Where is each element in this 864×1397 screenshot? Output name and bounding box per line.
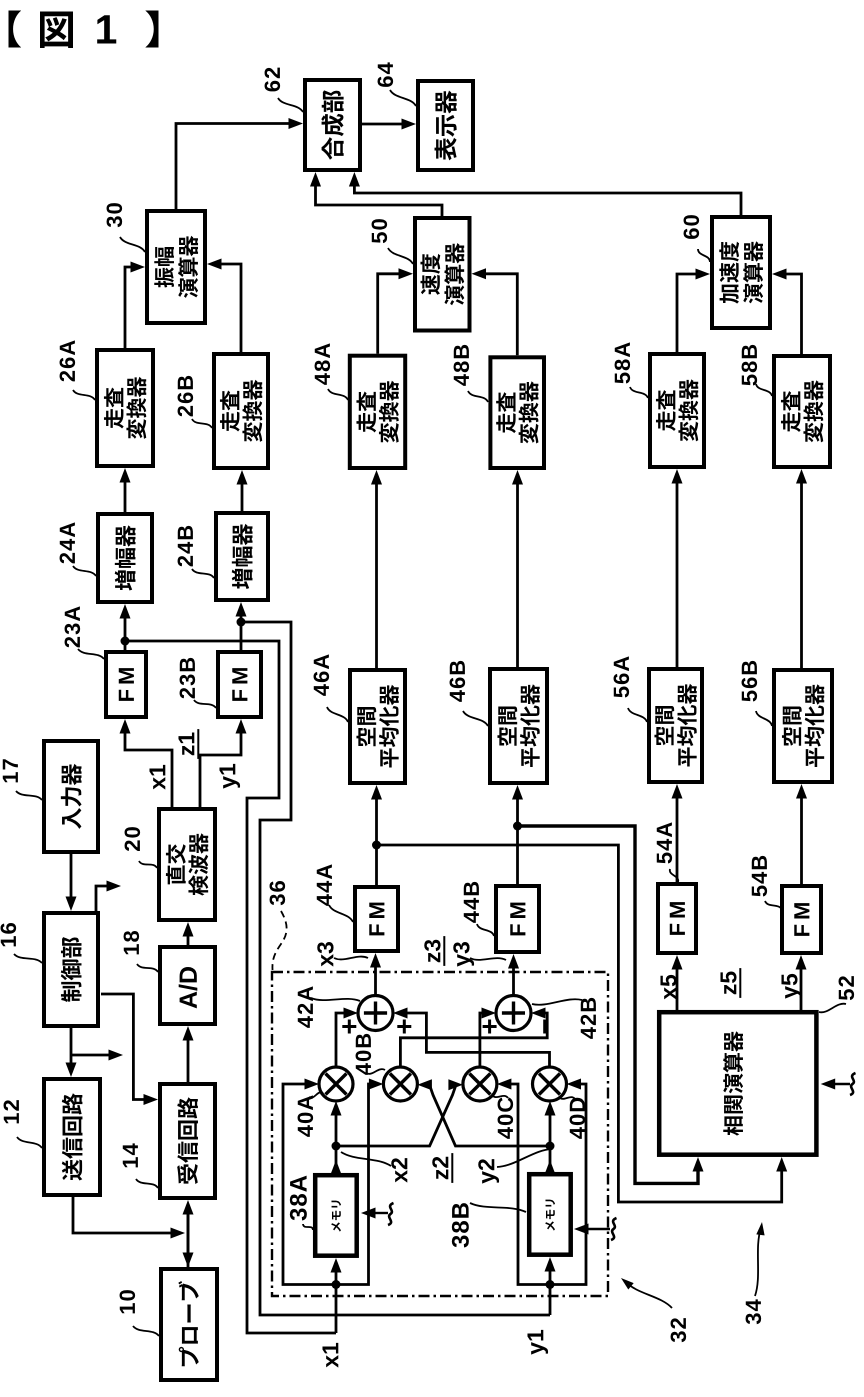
wire 20 to 23B y1 — [200, 731, 241, 807]
block 30 amplitude calculator text l1 — [154, 247, 174, 288]
block 16 controller text — [61, 937, 82, 1002]
block 12 transmit circuit text — [62, 1093, 83, 1180]
wire 17 to 16 — [70, 854, 73, 899]
label 18 — [124, 931, 140, 954]
leader 64 — [390, 90, 416, 106]
leader 44B — [477, 924, 494, 936]
leader 38B — [470, 1203, 526, 1212]
wire 50 to 62 — [316, 184, 443, 216]
block 56A spatial averager text l1 — [654, 706, 674, 745]
block 23A FM — [106, 652, 146, 717]
block 17 input device — [44, 741, 98, 852]
block 50 velocity calculator — [415, 218, 470, 331]
underline z3 — [443, 936, 445, 966]
block 60 acceleration calculator — [712, 217, 770, 328]
wire 44A to 46A — [375, 797, 378, 885]
leader 40C — [492, 1095, 508, 1098]
wire x3 feed to 52 — [377, 845, 782, 1202]
block 20 quadrature detector — [159, 809, 215, 920]
block 56A spatial averager text l2 — [677, 684, 697, 767]
wire 40D to 42A — [405, 1013, 550, 1067]
label 16 — [1, 923, 17, 946]
junction dot x1 branch — [332, 1280, 341, 1289]
block 64 hyoji-ki (display) — [418, 81, 473, 170]
label 14 — [123, 1143, 138, 1167]
label 42B — [581, 998, 596, 1039]
wire 12 to probe line — [73, 1197, 173, 1233]
block 24B amplifier text — [232, 524, 253, 589]
wire 40A to 42A — [336, 1013, 346, 1067]
label 54B — [752, 856, 767, 897]
leader 46A — [327, 707, 348, 722]
wire x1 branch to 40A — [283, 1084, 336, 1285]
junction dot y3 tap — [513, 822, 522, 831]
block 26B scan converter text l2 — [242, 380, 262, 442]
block 20 quadrature detector text l2 — [188, 833, 208, 895]
leader 48B — [468, 391, 488, 402]
signal z3 — [424, 940, 440, 963]
arrowhead leader 32 — [621, 1278, 634, 1290]
wire 62 to 64 — [362, 123, 404, 126]
block 23B FM — [218, 652, 261, 717]
leader 24A — [73, 566, 96, 576]
leader 50 — [388, 248, 413, 264]
wire 48A to 50 — [378, 274, 401, 354]
leader 18 — [137, 964, 158, 972]
mid arrowhead on 38B output — [545, 1160, 556, 1175]
block 58A scan converter text l1 — [656, 390, 676, 431]
block 46A spatial averager — [350, 670, 405, 783]
block 62 gosei-bu (combiner) — [305, 80, 360, 170]
plus sign 42A right — [397, 1020, 411, 1034]
block 10 probe — [161, 1269, 217, 1380]
block 14 receive circuit — [160, 1084, 215, 1198]
signal z2 — [432, 1157, 448, 1179]
block 46B spatial averager text l2 — [520, 684, 540, 767]
wire 14 to 18 — [187, 1038, 190, 1082]
label 52 — [839, 976, 855, 1000]
label 23A — [65, 606, 81, 647]
wire 42B to 44B y3 — [512, 966, 515, 996]
label 38B — [452, 1203, 469, 1247]
label 44B — [464, 882, 479, 923]
leader 62 — [278, 98, 303, 112]
leader y2 — [497, 1149, 552, 1167]
label 12 — [4, 1100, 19, 1123]
leader 58A — [630, 387, 648, 398]
leader 32 — [626, 1282, 672, 1308]
signal x1 top — [149, 765, 165, 790]
leader 34 — [755, 1228, 761, 1296]
label 36 — [270, 881, 286, 905]
signal x1 bottom — [322, 1343, 338, 1368]
underline z2 — [451, 1153, 453, 1183]
wire 48B to 50 — [484, 274, 518, 356]
label 32 — [671, 1318, 687, 1342]
leader 10 — [133, 1326, 159, 1336]
leader 42B — [532, 999, 582, 1005]
label 50 — [372, 219, 388, 243]
wire y1 branch to 40D — [550, 1084, 586, 1285]
block 58B scan converter text l1 — [781, 391, 801, 432]
wire 16 control stub mid — [71, 1054, 111, 1057]
signal x2 — [391, 1158, 407, 1183]
block 26A scan converter text l2 — [126, 377, 146, 439]
signal y1 bottom — [527, 1330, 548, 1355]
block 58B scan converter text l2 — [803, 380, 823, 442]
label 40A — [298, 1095, 314, 1136]
block 16 controller — [44, 913, 98, 1026]
wire 24B to 26B — [241, 482, 244, 511]
block 50 velocity calculator text l2 — [444, 243, 464, 305]
block 54A FM — [658, 884, 696, 953]
signal y2 — [478, 1159, 499, 1183]
wire 52 to 54A x5 — [676, 967, 679, 1010]
leader 26A — [73, 390, 95, 400]
block 46B spatial averager text l1 — [497, 707, 517, 746]
underline z1 — [197, 729, 199, 759]
wire 30 to 62 — [176, 124, 291, 210]
signal x5 — [660, 975, 676, 1000]
label 24B — [178, 526, 193, 567]
wire 16 to 14 control — [101, 994, 146, 1100]
leader 40D — [559, 1097, 575, 1099]
wire probe down — [187, 1210, 190, 1255]
wire control to 52 — [833, 1083, 850, 1085]
wire 14 probe up — [187, 1212, 190, 1267]
block 24A amplifier — [98, 514, 152, 602]
leader 14 — [136, 1179, 158, 1188]
leader 52 — [819, 1004, 846, 1013]
block 38B memory — [529, 1174, 571, 1255]
leader 54B — [765, 901, 782, 910]
label 38A — [290, 1176, 307, 1221]
leader 20 — [139, 861, 157, 868]
wire 16 control stub up — [96, 886, 109, 911]
dashed enclosure box 36 — [272, 972, 608, 1296]
block 12 transmit circuit — [44, 1079, 100, 1195]
adder 42A — [358, 996, 393, 1031]
block 56A spatial averager — [649, 669, 702, 782]
block 58B scan converter — [774, 356, 830, 467]
block 26A scan converter text l1 — [104, 388, 124, 429]
leader 40A — [309, 1092, 323, 1097]
wire x1 bus — [125, 641, 336, 1333]
leader x3 — [334, 957, 368, 960]
block 56B spatial averager text l1 — [782, 707, 802, 746]
leader x2 — [341, 1152, 391, 1166]
label 62 — [265, 68, 281, 92]
block 48A scan converter text l2 — [379, 381, 399, 443]
wire 58A to 60 — [677, 274, 698, 352]
leader 16 — [14, 954, 42, 963]
label 26A — [60, 340, 76, 381]
wire 38B to 40D y2 — [549, 1113, 552, 1172]
wire 23B to 24B — [240, 614, 243, 650]
signal x3 — [317, 942, 333, 967]
block 54B FM — [782, 886, 821, 953]
leader 44A — [329, 905, 353, 922]
label 60 — [684, 215, 700, 239]
label 48B — [454, 345, 470, 386]
caption 【図 1】 — [9, 11, 21, 48]
FM 23A text — [119, 668, 134, 701]
control squiggle 38A — [388, 1203, 394, 1225]
block 48A scan converter text l1 — [356, 391, 376, 432]
adder 42B — [496, 996, 531, 1031]
leader 30 — [120, 237, 145, 252]
block 14 receive circuit text — [177, 1097, 198, 1184]
multiplier 40A — [319, 1067, 353, 1101]
wire y1 bus — [241, 622, 550, 1315]
signal y5 — [781, 974, 802, 999]
block 46B spatial averager — [490, 669, 547, 783]
wire y1 riser to 38B — [549, 1269, 552, 1315]
block 48A scan converter — [350, 356, 405, 468]
block 30 amplitude calculator — [147, 211, 205, 323]
leader y3 — [470, 958, 506, 960]
block 48B scan converter — [490, 357, 544, 468]
block 48B scan converter text l2 — [519, 381, 539, 443]
wire 46B to 48B — [516, 482, 519, 667]
wire 60 to 62 — [354, 184, 741, 215]
junction dot x1 tap — [121, 637, 130, 646]
leader 26B — [192, 419, 212, 428]
leader 54A — [670, 869, 678, 882]
control squiggle 52 — [850, 1073, 856, 1095]
FM 44B text — [510, 903, 525, 936]
wire 46A to 48A — [375, 482, 378, 668]
wire 18 to 20 — [187, 934, 190, 945]
wire 26A to 30 — [125, 267, 133, 348]
A/D text — [179, 967, 198, 1008]
wire 20 to 23A x1 — [125, 731, 172, 807]
label 48A — [315, 343, 331, 384]
label 26B — [178, 376, 194, 417]
FM 23B text — [232, 668, 247, 701]
block 56B spatial averager text l2 — [804, 684, 824, 767]
signal z1 — [178, 732, 194, 755]
wire 58B to 60 — [784, 274, 802, 354]
leader 36 — [272, 911, 286, 970]
leader 48A — [328, 389, 348, 400]
leader 58B — [756, 384, 772, 396]
multiplier 40B — [383, 1067, 417, 1101]
label 24A — [60, 522, 75, 563]
signal y3 — [453, 942, 474, 967]
arrowhead leader 34 — [756, 1222, 764, 1235]
block 56B spatial averager — [774, 670, 832, 782]
label 40D — [570, 1098, 586, 1139]
wire x1 branch to 40B — [336, 1084, 371, 1285]
block 58A scan converter text l2 — [678, 379, 698, 441]
leader 60 — [698, 249, 710, 262]
wire x2 cross to 40C — [336, 1085, 456, 1146]
wire 40B to 42B — [400, 1013, 547, 1067]
wire 56A to 58A — [676, 481, 679, 667]
wire 40C to 42B — [480, 1013, 484, 1067]
wire 54B to 56B — [800, 796, 803, 884]
label 54A — [657, 822, 672, 863]
wire 52 to 54B y5 — [800, 967, 803, 1010]
block 44B FM — [496, 886, 539, 952]
mid arrowhead on 38A output — [331, 1160, 342, 1175]
signal y1 top — [219, 764, 240, 789]
wire control to 38A — [373, 1212, 388, 1214]
block 48B scan converter text l1 — [496, 392, 516, 433]
junction dot y2 tap — [546, 1142, 555, 1151]
wire 26B to 30 — [219, 264, 241, 352]
block 30 amplitude calculator text l2 — [178, 236, 198, 298]
block 60 acceleration calculator text l1 — [719, 242, 739, 304]
block 44A FM — [355, 887, 398, 951]
leader 23B — [194, 700, 216, 708]
wire 44B to 46B — [516, 797, 519, 884]
leader 56B — [756, 711, 772, 726]
label 10 — [120, 1290, 136, 1313]
junction dot y1 branch — [546, 1280, 555, 1289]
FM 44A text — [369, 903, 384, 936]
leader 40B — [366, 1069, 385, 1074]
leader 46B — [463, 711, 488, 726]
leader 56A — [628, 708, 647, 722]
leader 17 — [16, 791, 42, 800]
label 20 — [125, 827, 141, 851]
leader 12 — [17, 1137, 42, 1148]
block 20 quadrature detector text l1 — [166, 844, 186, 884]
junction dot y1 tap — [237, 618, 246, 627]
wire control to 38B — [586, 1228, 610, 1230]
leader 38A — [303, 1224, 313, 1230]
block 10 probe text — [178, 1281, 198, 1366]
label 56B — [742, 661, 758, 702]
label 40C — [498, 1097, 514, 1138]
label 23B — [180, 658, 196, 699]
wire 38A to 40A x2 — [335, 1113, 338, 1173]
block 58A scan converter — [650, 354, 704, 467]
junction dot x2 tap — [332, 1142, 341, 1151]
block 46A spatial averager text l1 — [356, 707, 376, 746]
block 46A spatial averager text l2 — [379, 685, 399, 768]
block 38A memory text — [331, 1201, 341, 1232]
block 26A scan converter — [97, 350, 153, 466]
label 56A — [614, 656, 630, 697]
block 60 acceleration calculator text l2 — [743, 241, 763, 303]
leader 23A — [78, 649, 104, 659]
wire 42A to 44A x3 — [374, 965, 377, 996]
underline z5 — [739, 968, 741, 998]
multiplier 40C — [463, 1067, 497, 1101]
block 17 input device text — [61, 764, 82, 829]
wire x1 riser to 38A — [335, 1270, 338, 1333]
label 17 — [3, 759, 18, 782]
label 46A — [314, 654, 330, 695]
block 18 A/D — [160, 947, 215, 1024]
label 42A — [298, 986, 313, 1027]
block 24A amplifier text — [115, 525, 136, 590]
block 38A memory — [315, 1175, 357, 1256]
wire 24A to 26A — [124, 480, 127, 512]
block 26B scan converter text l1 — [220, 391, 240, 432]
plus sign 42A left — [342, 1020, 356, 1034]
FM 54B text — [794, 903, 809, 936]
signal z5 — [720, 971, 736, 994]
wire 54A to 56A — [676, 796, 679, 882]
label 46B — [450, 661, 466, 702]
leader 42A — [311, 998, 360, 1001]
junction dot x3 tap — [372, 841, 381, 850]
block 64 hyoji-ki (display) text — [435, 91, 457, 161]
leader 24B — [192, 569, 214, 578]
label 58B — [742, 345, 758, 386]
block 26B scan converter — [214, 354, 268, 468]
block 62 gosei-bu (combiner) text — [321, 90, 344, 159]
label 34 — [746, 1299, 762, 1324]
label 44A — [317, 864, 332, 905]
wire 23A to 24A — [124, 616, 127, 650]
label 30 — [107, 203, 123, 227]
minus sign 42B right — [543, 1020, 546, 1034]
multiplier 40D — [533, 1067, 567, 1101]
plus sign 42B left — [483, 1020, 497, 1034]
label 64 — [378, 62, 394, 87]
wire y2 cross to 40B — [429, 1085, 550, 1146]
control squiggle 38B — [611, 1218, 617, 1240]
block 52 correlation calculator — [659, 1012, 816, 1154]
FM 54A text — [670, 902, 685, 935]
label 58A — [615, 342, 631, 383]
wire 56B to 58B — [800, 481, 803, 668]
block 52 text — [723, 1031, 743, 1135]
wire y1 branch to 40C — [509, 1084, 550, 1285]
block 24B amplifier — [216, 513, 268, 600]
label 40B — [356, 1034, 372, 1075]
wire 16 to 12 — [70, 1028, 73, 1065]
block 38B memory text — [545, 1200, 555, 1231]
block 50 velocity calculator text l1 — [420, 254, 440, 295]
wire y3 feed to 52 — [518, 826, 699, 1183]
